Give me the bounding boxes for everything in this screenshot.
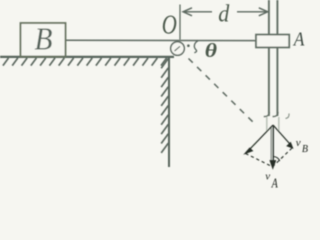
svg-text:θ: θ xyxy=(205,39,217,61)
svg-text:O: O xyxy=(162,10,177,40)
ink dot at pulley tangent xyxy=(187,44,190,47)
pulley axle slash xyxy=(175,46,181,51)
dashed string (later position) xyxy=(189,59,257,126)
block A xyxy=(256,35,289,48)
string B to A xyxy=(65,39,256,41)
svg-text:v: v xyxy=(296,137,301,149)
pulley O xyxy=(171,42,185,56)
vector left component xyxy=(245,125,273,153)
table surface line xyxy=(0,56,174,58)
vector vB xyxy=(273,125,293,148)
svg-text:B: B xyxy=(35,22,53,57)
vector vA (vertical arrow, doubled shaft) xyxy=(270,125,276,168)
svg-text:v: v xyxy=(265,170,270,182)
svg-text:B: B xyxy=(302,144,309,155)
rail faint continuations xyxy=(266,117,268,132)
wall edge (vertical) xyxy=(168,56,170,167)
left rail xyxy=(268,0,270,116)
svg-text:A: A xyxy=(271,175,278,191)
wall hatching xyxy=(161,59,168,153)
block B xyxy=(21,23,66,57)
svg-text:A: A xyxy=(292,28,305,51)
svg-text:d: d xyxy=(218,1,229,28)
theta arc xyxy=(194,41,198,53)
table hatching xyxy=(3,58,167,66)
d arrow right part xyxy=(237,8,268,16)
right rail xyxy=(276,0,278,116)
small angle arc at bottom vertex xyxy=(274,157,280,162)
d arrow left part xyxy=(183,8,212,16)
tick at O xyxy=(179,5,181,40)
dashed parallelogram side right xyxy=(273,148,292,167)
dashed parallelogram side left xyxy=(246,154,273,167)
rail end feet xyxy=(264,112,270,117)
